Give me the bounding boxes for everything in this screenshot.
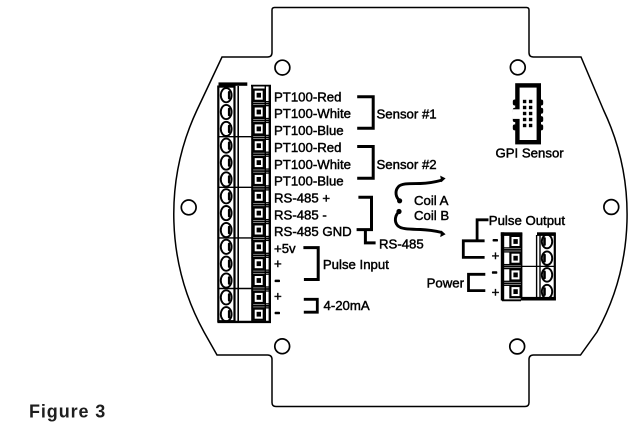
- svg-text:PT100-Red: PT100-Red: [274, 89, 341, 104]
- svg-text:Coil B: Coil B: [414, 208, 449, 223]
- bracket 4-20mA: [304, 299, 318, 312]
- svg-text:+: +: [274, 256, 282, 271]
- mounting hole top-right: [510, 60, 525, 75]
- board outline: [174, 8, 627, 407]
- bracket pulse output terminals: [463, 241, 484, 258]
- svg-text:+: +: [492, 285, 500, 300]
- svg-text:PT100-Red: PT100-Red: [274, 140, 341, 155]
- TB1 terminal 1 (PT100-Red): [221, 88, 264, 102]
- svg-text:Sensor #2: Sensor #2: [377, 157, 437, 172]
- terminal block TB1 housing: [218, 82, 272, 322]
- TB2 terminal 3: [510, 268, 552, 282]
- TB1 terminal 10 (+5v): [221, 240, 264, 254]
- mounting hole left: [181, 200, 196, 215]
- svg-text:+5v: +5v: [274, 241, 296, 256]
- net label row 14: -: [275, 312, 280, 315]
- svg-text:Figure 3: Figure 3: [29, 402, 106, 422]
- wire Pulse Output connector: [477, 220, 488, 241]
- svg-text:PT100-White: PT100-White: [274, 157, 351, 172]
- svg-text:RS-485 -: RS-485 -: [274, 207, 327, 222]
- wire RS-485 L-connector: [365, 230, 375, 243]
- TB1 terminal 12 (-): [221, 273, 264, 287]
- svg-text:Sensor #1: Sensor #1: [377, 106, 437, 121]
- svg-text:Pulse Output: Pulse Output: [489, 213, 566, 228]
- svg-text:Coil A: Coil A: [414, 193, 449, 208]
- mounting hole right: [604, 200, 619, 215]
- coil A wire arrow: [396, 176, 446, 204]
- TB2 polarity label - at y 240.3: [493, 239, 498, 242]
- TB1 terminal 2 (PT100-White): [221, 105, 264, 119]
- TB2 polarity label - at y 272.5: [492, 271, 497, 274]
- svg-text:RS-485 GND: RS-485 GND: [274, 224, 352, 239]
- TB2 terminal 1: [510, 235, 552, 249]
- mounting hole bottom-left: [275, 339, 290, 354]
- TB1 terminal 13 (+): [221, 290, 264, 304]
- mounting hole top-left: [275, 60, 290, 75]
- svg-text:PT100-Blue: PT100-Blue: [274, 174, 344, 189]
- TB2 terminal 2: [510, 251, 552, 265]
- TB1 terminal 3 (PT100-Blue): [221, 122, 264, 136]
- bracket power terminals: [469, 274, 486, 290]
- svg-text:PT100-White: PT100-White: [274, 106, 351, 121]
- bracket Sensor #1: [357, 97, 373, 128]
- TB1 terminal 5 (PT100-White): [221, 156, 264, 170]
- bracket RS-485 group: [357, 197, 372, 229]
- svg-text:+: +: [492, 248, 500, 263]
- terminal block TB2 housing: [501, 232, 556, 300]
- TB1 terminal 11 (+): [221, 257, 264, 271]
- coil B wire arrow: [395, 209, 445, 237]
- svg-text:GPI Sensor: GPI Sensor: [496, 146, 565, 161]
- bracket Pulse Input: [303, 248, 318, 280]
- TB1 terminal 4 (PT100-Red): [221, 139, 264, 153]
- mounting hole bottom-right: [510, 339, 525, 354]
- connector J1 GPI sensor: [513, 83, 544, 144]
- svg-text:RS-485 +: RS-485 +: [274, 191, 330, 206]
- TB1 terminal 14 (-): [221, 307, 264, 321]
- svg-text:+: +: [274, 289, 282, 304]
- svg-text:Pulse Input: Pulse Input: [323, 257, 389, 272]
- net label row 12: -: [275, 280, 280, 283]
- TB1 terminal 9 (RS-485 GND): [221, 223, 264, 237]
- svg-text:4-20mA: 4-20mA: [324, 298, 370, 313]
- svg-text:Power: Power: [427, 276, 465, 291]
- bracket Sensor #2: [357, 147, 373, 179]
- TB1 terminal 8 (RS-485 -): [221, 206, 264, 220]
- TB1 terminal 6 (PT100-Blue): [221, 172, 264, 186]
- TB2 terminal 4: [510, 285, 552, 299]
- TB1 terminal 7 (RS-485 +): [221, 189, 264, 203]
- svg-text:RS-485: RS-485: [379, 236, 424, 251]
- svg-text:PT100-Blue: PT100-Blue: [274, 123, 344, 138]
